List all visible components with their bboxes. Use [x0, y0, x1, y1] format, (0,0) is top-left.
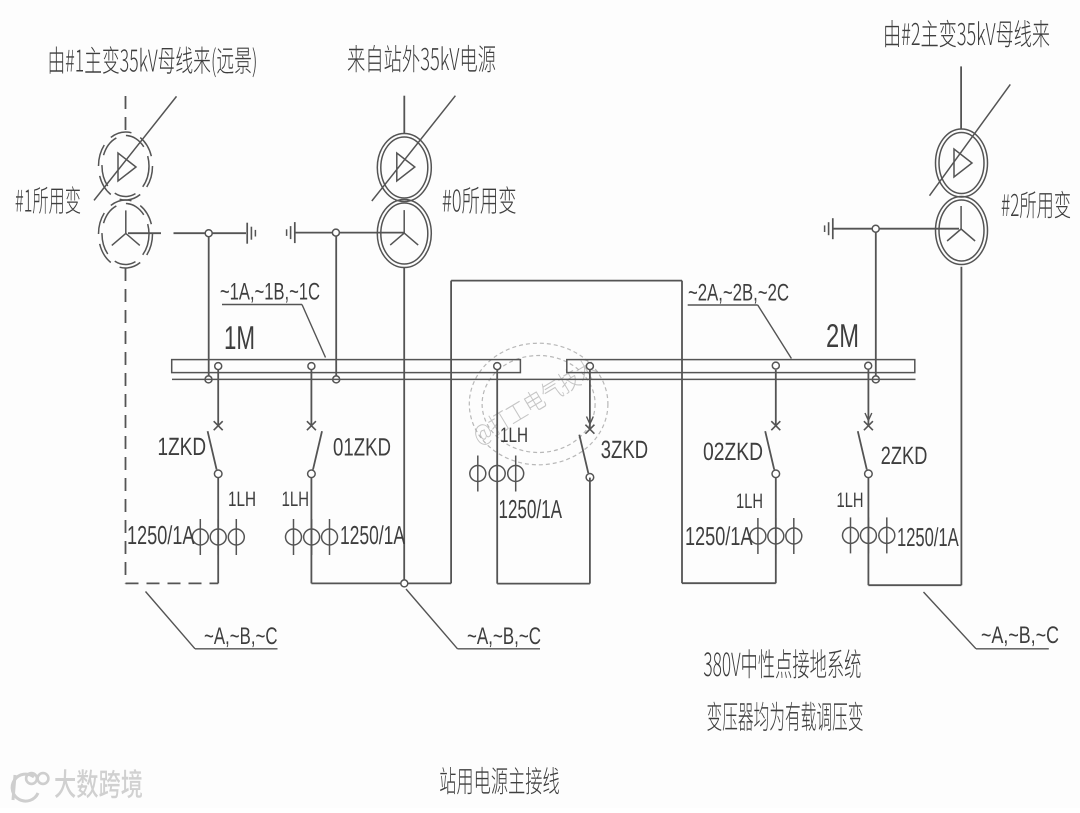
ground: #2 neutral earthing [825, 218, 833, 239]
label 1250/1A (02ZKD) [686, 526, 752, 545]
CT group 1LH (bus tie) [470, 456, 524, 492]
label ~A,~B,~C (left) with leader [146, 592, 278, 649]
wire: bridge over bus (pi link to 02ZKD) [451, 281, 776, 584]
label: 由#2主变35kV母线来 [885, 20, 1049, 48]
label ~1A,~1B,~1C with leader [221, 283, 326, 358]
ground: left neutral earthing [247, 223, 255, 244]
watermark seal (dashed ellipses) [469, 343, 608, 465]
wire: #1 incoming (dashed) [125, 96, 127, 132]
wire: 2ZKD feeder down [867, 478, 869, 586]
wire: 01ZKD feeder down [310, 478, 312, 584]
label ~A,~B,~C (right) with leader [924, 592, 1059, 649]
wire: #2 LV neutral line [833, 228, 959, 230]
wire: bus lower line [172, 378, 916, 380]
node: 2M bus tap 2ZKD [865, 362, 872, 369]
node: junction #2 LV [872, 225, 879, 232]
label ~A,~B,~C (centre) with leader [406, 589, 540, 649]
node: 2M bus tap 02ZKD [772, 362, 779, 369]
breaker 3ZKD [579, 370, 594, 481]
note: 380V中性点接地系统 [704, 649, 861, 678]
label 1ZKD [159, 438, 205, 455]
label 1250/1A (bus tie) [500, 499, 562, 518]
label 3ZKD [601, 441, 647, 459]
note: 变压器均为有载调压变 [707, 702, 862, 731]
CT group 1LH (2ZKD feeder) [843, 517, 895, 553]
label: 由#1主变35kV母线来(远景) [50, 46, 256, 77]
label 2ZKD [882, 447, 927, 465]
label 01ZKD [334, 438, 390, 456]
node: 1M bus tap 01ZKD [308, 363, 315, 370]
title: 站用电源主接线 [440, 767, 559, 795]
label 1LH (02ZKD) [737, 494, 762, 508]
CT group 1LH (02ZKD feeder) [750, 518, 802, 554]
ground: #0 neutral earthing [287, 222, 295, 243]
label 1LH (bus tie) [501, 428, 527, 442]
wire: #0 LV drop to 1M bus [335, 236, 337, 376]
node: junction #0 LV [332, 229, 339, 236]
busbar 2M [567, 360, 915, 373]
transformer T2 #2所用变 (delta-wye) [930, 84, 1011, 264]
label 1M [226, 326, 254, 349]
label 1250/1A (01ZKD) [341, 525, 405, 544]
watermark rotated text [470, 356, 601, 448]
breaker 2ZKD [858, 370, 873, 478]
breaker 1ZKD [208, 370, 223, 478]
node: tap on bus lower line (right) [872, 376, 879, 383]
CT group 1LH (1ZKD feeder) [192, 519, 244, 555]
label #0所用变 [443, 186, 516, 214]
transformer T0 #0所用变 (delta-wye) [372, 96, 456, 268]
busbar 1M [172, 360, 521, 373]
wire: future feeder loop (dashed) [126, 268, 219, 583]
wire: 3ZKD down + tie bottom [497, 478, 590, 584]
wire: #0 transformer main feeder down [403, 267, 405, 583]
label 1250/1A (1ZKD) [128, 525, 194, 544]
wire: tie CT branch down [496, 370, 498, 584]
wire: #1 LV neutral line [128, 232, 246, 234]
label 1LH (01ZKD) [283, 492, 308, 506]
wire: #2 LV drop to 2M bus [875, 232, 877, 376]
CT group 1LH (01ZKD feeder) [286, 519, 338, 555]
node: 2M bus tap 3ZKD [586, 363, 593, 370]
breaker 01ZKD [307, 370, 322, 478]
label 2M [827, 324, 857, 347]
wire: 1ZKD feeder down [217, 478, 219, 584]
wire: #0 incoming [403, 96, 405, 134]
label 1LH (1ZKD) [229, 492, 255, 506]
wire: 02ZKD feeder down [775, 478, 777, 584]
wire: #1 LV drop to 1M bus [208, 237, 210, 376]
label: 来自站外35kV电源 [348, 45, 496, 72]
node: 1M bus tap tie-CT [494, 363, 501, 370]
label 1LH (2ZKD) [838, 493, 863, 507]
wire: #2 incoming [960, 66, 962, 128]
label 02ZKD [704, 443, 762, 461]
label 1250/1A (2ZKD) [898, 527, 958, 546]
node: junction #0 feeder / bottom link [401, 580, 408, 587]
node: tap on bus lower line (centre) [333, 376, 340, 383]
label ~2A,~2B,~2C with leader [688, 284, 792, 359]
transformer T1 #1所用变 (dashed future, delta-wye) [94, 96, 177, 268]
label #2所用变 [1002, 191, 1070, 219]
wire: 2ZKD bottom link [868, 584, 961, 586]
breaker 02ZKD [765, 370, 780, 478]
wire: #0 LV neutral line [296, 232, 405, 234]
wire: #2 transformer main feeder down [960, 267, 962, 585]
node: tap on bus lower line (left) [205, 376, 212, 383]
node: junction #1 LV [205, 230, 212, 237]
wire: 01ZKD bottom link [311, 582, 451, 584]
label #1所用变 [16, 186, 81, 214]
watermark logo 大数跨境 [12, 769, 142, 801]
node: 1M bus tap 1ZKD [215, 363, 222, 370]
